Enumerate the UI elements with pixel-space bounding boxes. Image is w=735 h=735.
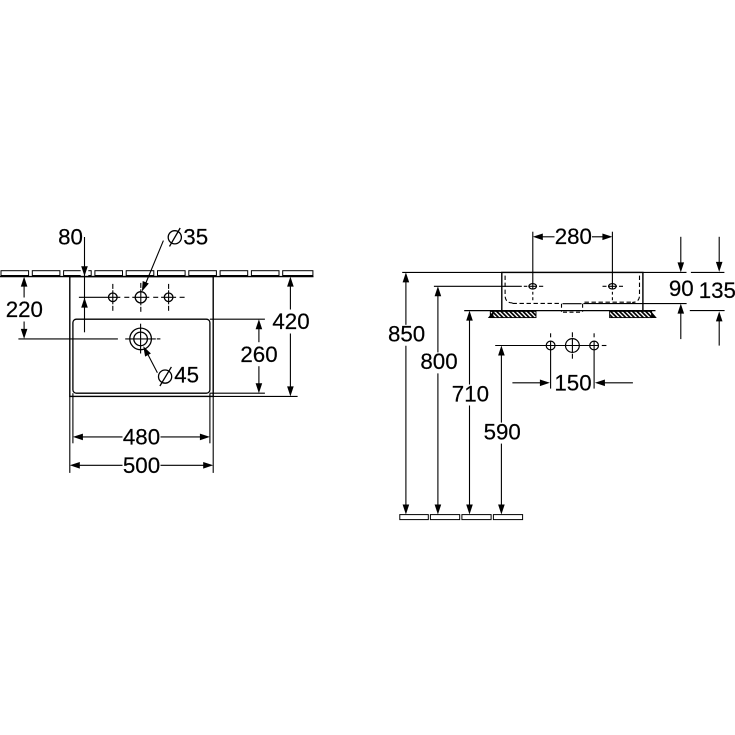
dimension 850	[388, 272, 425, 514]
wall tile row	[1, 271, 313, 276]
mounting hole axis + 800 extension	[434, 285, 623, 287]
supply small holes vertical dashes	[551, 333, 595, 350]
basin outer rectangle	[70, 277, 213, 397]
svg-text:260: 260	[240, 342, 277, 367]
basin body (side profile)	[502, 272, 643, 310]
dimension 280	[533, 224, 613, 249]
underside console line	[464, 310, 655, 312]
dimension 480	[73, 424, 210, 449]
inner bottom extension line	[210, 392, 265, 394]
supply hole left	[546, 341, 555, 350]
faucet hole center vertical centerline	[140, 283, 142, 312]
svg-text:220: 220	[6, 297, 43, 322]
hidden bowl bottom dashed right portion	[585, 301, 635, 303]
svg-text:420: 420	[272, 309, 309, 334]
svg-text:90: 90	[669, 276, 694, 301]
supply hole axis + 590 extension	[495, 345, 606, 347]
drain trap hidden outline	[562, 304, 583, 313]
dimension 800	[420, 286, 457, 514]
supply center vertical centerline	[571, 332, 573, 358]
dimension 80	[58, 224, 88, 332]
135 bottom extension line	[690, 310, 725, 312]
dimension 500	[70, 453, 213, 478]
svg-text:710: 710	[452, 381, 489, 406]
svg-text:850: 850	[388, 322, 425, 347]
dimension 420	[272, 277, 309, 397]
rim extension line	[402, 271, 686, 273]
mounting hole left	[529, 284, 537, 289]
drain hole outer circle	[130, 328, 152, 350]
dimension 710	[452, 311, 489, 515]
hidden bowl bottom dashed	[513, 302, 561, 304]
left mounting hatch block	[490, 311, 536, 317]
svg-text:35: 35	[183, 224, 208, 249]
faucet hole right vertical centerline	[168, 284, 170, 311]
floor tile row	[400, 515, 523, 520]
svg-text:800: 800	[420, 349, 457, 374]
faucet hole left vertical centerline	[112, 284, 114, 311]
svg-text:280: 280	[555, 224, 592, 249]
basin inner bowl rectangle	[73, 319, 210, 393]
dimension 590	[484, 346, 521, 515]
faucet hole center (Ø35)	[135, 292, 146, 303]
supply hole right	[590, 341, 599, 350]
right wedge	[651, 312, 657, 319]
90 extension line (bowl depth)	[583, 303, 686, 305]
dimension 90	[669, 237, 694, 339]
inner top extension line	[210, 318, 265, 320]
outer bottom extension line	[213, 395, 297, 397]
mounting hole right	[609, 284, 617, 289]
150 extension verticals	[550, 350, 552, 389]
dimension 135	[699, 237, 735, 346]
dimension 220	[6, 277, 43, 339]
right mounting hatch block	[610, 311, 652, 317]
dimension 150	[512, 370, 633, 395]
hidden bowl outline right	[632, 276, 639, 303]
svg-text:150: 150	[554, 370, 591, 395]
leader Ø35	[142, 224, 208, 291]
extension verticals below basin (outer pair)	[69, 396, 71, 473]
faucet hole left	[109, 293, 118, 302]
svg-text:480: 480	[123, 424, 160, 449]
svg-text:80: 80	[58, 224, 83, 249]
svg-text:590: 590	[484, 419, 521, 444]
drain horizontal centerline + 220 extension	[18, 338, 160, 340]
leader Ø45	[143, 346, 199, 387]
dimension 260	[240, 319, 277, 393]
svg-text:45: 45	[174, 363, 199, 388]
supply hole center	[566, 339, 580, 353]
wall surface line	[0, 276, 314, 278]
hidden bowl outline left	[505, 276, 512, 303]
svg-text:500: 500	[123, 453, 160, 478]
left wedge	[488, 312, 494, 319]
svg-text:135: 135	[699, 278, 735, 303]
drain vertical centerline	[140, 324, 142, 354]
faucet hole axis centerline	[79, 296, 185, 298]
drain hole inner circle (Ø45)	[134, 332, 148, 346]
extension verticals below basin (inner pair)	[72, 393, 74, 443]
280 extension verticals	[533, 232, 613, 301]
faucet hole right	[164, 293, 173, 302]
